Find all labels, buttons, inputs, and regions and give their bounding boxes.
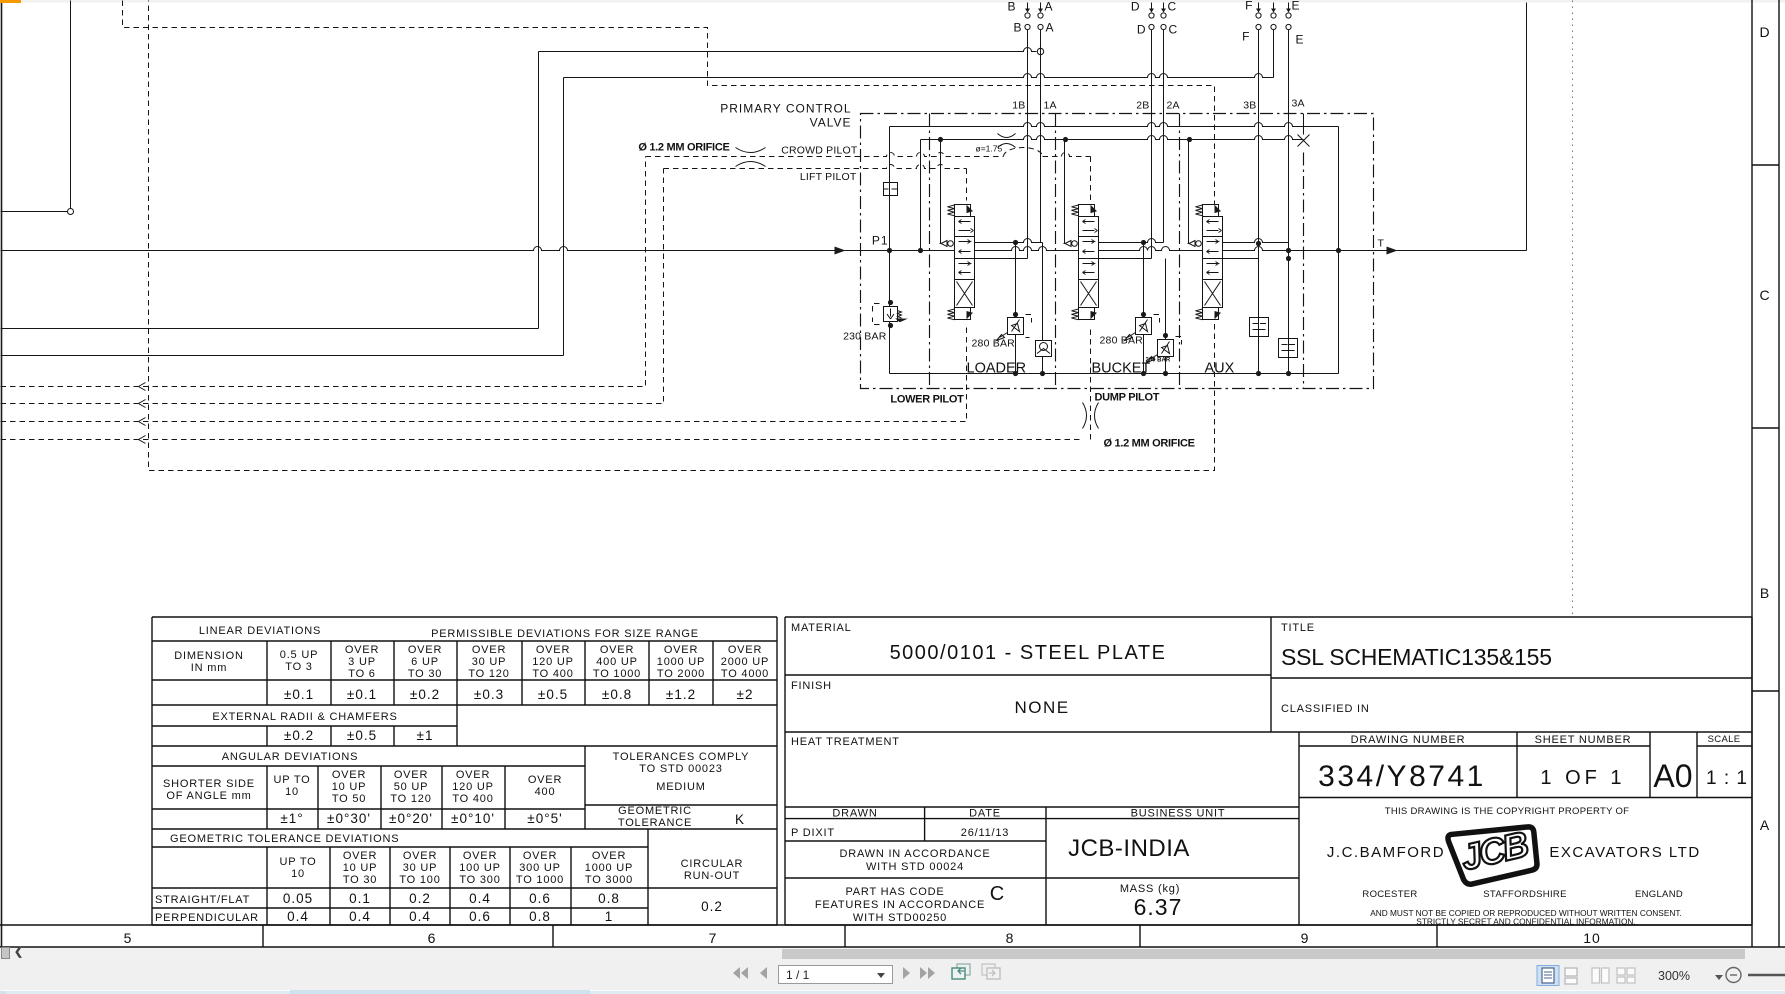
page layout icons: [1530, 965, 1650, 989]
svg-text:CLASSIFIED IN: CLASSIFIED IN: [1281, 703, 1370, 715]
svg-text:±0.2: ±0.2: [410, 687, 440, 702]
svg-text:3A: 3A: [1292, 98, 1305, 110]
restrictor (pilot filter): [884, 183, 898, 196]
svg-text:TO 120: TO 120: [390, 793, 431, 805]
border zone column right: [1752, 0, 1779, 947]
wire: port 1A: [1040, 30, 1042, 243]
title block text: [791, 622, 1748, 927]
svg-text:GEOMETRIC: GEOMETRIC: [618, 805, 692, 817]
svg-text:Ø 1.2 MM ORIFICE: Ø 1.2 MM ORIFICE: [1104, 438, 1195, 450]
svg-text:D: D: [1137, 23, 1147, 37]
svg-text:0.6: 0.6: [529, 891, 551, 906]
viewer bottom toolbar: [0, 948, 1785, 990]
svg-text:E: E: [1292, 0, 1301, 13]
svg-text:5: 5: [124, 930, 133, 946]
tolerance table text: [155, 625, 769, 924]
svg-text:OVER: OVER: [403, 850, 437, 862]
wire: port 1B: [1027, 30, 1029, 259]
svg-text:PART HAS CODE: PART HAS CODE: [845, 886, 944, 898]
secondary relief (bucket): [1147, 259, 1182, 374]
svg-text:1000 UP: 1000 UP: [585, 862, 633, 874]
svg-text:0.8: 0.8: [529, 909, 551, 924]
svg-text:0.8: 0.8: [598, 891, 620, 906]
wire: main pressure line P: [1, 247, 1527, 251]
svg-text:±2: ±2: [737, 687, 754, 702]
svg-text:B: B: [1013, 21, 1022, 35]
svg-text:LOADER: LOADER: [967, 361, 1027, 377]
port relief valve 280 BAR (loader): [997, 243, 1032, 374]
svg-text:F: F: [1242, 30, 1250, 44]
svg-text:P1: P1: [872, 234, 889, 248]
wire: dump pilot line: [1, 326, 1091, 444]
svg-text:P DIXIT: P DIXIT: [791, 827, 835, 839]
svg-text:FEATURES IN ACCORDANCE: FEATURES IN ACCORDANCE: [815, 899, 985, 911]
svg-text:10 UP: 10 UP: [343, 862, 378, 874]
svg-text:OVER: OVER: [456, 769, 490, 781]
ports D/C arrows+circles: [1149, 3, 1166, 30]
wire: dashed drain line loop: [123, 1, 1215, 471]
svg-text:OF ANGLE mm: OF ANGLE mm: [166, 790, 251, 802]
svg-text:0.4: 0.4: [349, 909, 371, 924]
anti-cavitation valve 3B: [1250, 318, 1269, 337]
svg-text:LIFT PILOT: LIFT PILOT: [800, 171, 857, 183]
svg-text:30 UP: 30 UP: [472, 656, 507, 668]
svg-text:120 UP: 120 UP: [532, 656, 574, 668]
svg-text:JCB-INDIA: JCB-INDIA: [1068, 835, 1190, 862]
svg-text:7: 7: [709, 930, 718, 946]
svg-text:ROCESTER: ROCESTER: [1362, 889, 1417, 900]
svg-text:OVER: OVER: [728, 644, 762, 656]
ports F/E arrows+circles: [1256, 3, 1291, 30]
svg-text:OVER: OVER: [472, 644, 506, 656]
anti-cavitation valve 3A: [1279, 339, 1298, 358]
horizontal scrollbar: [0, 948, 1785, 959]
plug X at 3A spool: [1298, 135, 1310, 147]
wire: port 2A: [1163, 30, 1165, 243]
svg-text:TO 3000: TO 3000: [585, 874, 633, 886]
svg-text:±0°10': ±0°10': [451, 811, 495, 826]
JCB logo: [1447, 816, 1542, 887]
svg-text:OVER: OVER: [332, 769, 366, 781]
svg-text:WITH STD00250: WITH STD00250: [853, 912, 947, 924]
svg-text:120 UP: 120 UP: [452, 781, 494, 793]
svg-text:CROWD PILOT: CROWD PILOT: [781, 145, 858, 157]
4/3 spool valve V2: [1064, 140, 1164, 320]
svg-text:±0.2: ±0.2: [284, 728, 314, 743]
svg-text:OVER: OVER: [394, 769, 428, 781]
svg-text:WITH STD 00024: WITH STD 00024: [866, 861, 964, 873]
svg-text:E: E: [1296, 33, 1305, 47]
svg-text:IN mm: IN mm: [191, 662, 227, 674]
svg-text:±0°20': ±0°20': [389, 811, 433, 826]
wire: pilot supply bus: [921, 136, 1304, 251]
wire: upper work line A: [1, 48, 1044, 329]
svg-text:0.2: 0.2: [409, 891, 431, 906]
svg-text:TO 1000: TO 1000: [593, 668, 641, 680]
svg-text:ANGULAR DEVIATIONS: ANGULAR DEVIATIONS: [222, 751, 358, 763]
svg-text:280 BAR: 280 BAR: [972, 338, 1016, 350]
bottom edge strip: [0, 990, 1785, 994]
svg-text:D: D: [1759, 24, 1770, 40]
title block: [785, 617, 1752, 925]
svg-text:TO 30: TO 30: [343, 874, 377, 886]
svg-text:DUMP PILOT: DUMP PILOT: [1095, 392, 1160, 404]
svg-text:D: D: [1131, 0, 1141, 14]
svg-text:MEDIUM: MEDIUM: [656, 781, 705, 793]
svg-text:50 UP: 50 UP: [394, 781, 429, 793]
svg-text:A: A: [1046, 21, 1055, 35]
svg-text:OVER: OVER: [345, 644, 379, 656]
svg-text:10: 10: [1583, 930, 1601, 946]
svg-text:6 UP: 6 UP: [411, 656, 439, 668]
svg-text:LINEAR DEVIATIONS: LINEAR DEVIATIONS: [199, 625, 321, 637]
svg-text:NONE: NONE: [1014, 698, 1069, 717]
svg-text:TO 2000: TO 2000: [657, 668, 705, 680]
svg-text:±0.1: ±0.1: [284, 687, 314, 702]
svg-text:DIMENSION: DIMENSION: [174, 650, 244, 662]
wire: lift pilot line: [1, 165, 967, 408]
svg-text:1: 1: [605, 909, 614, 924]
svg-text:SHEET NUMBER: SHEET NUMBER: [1535, 734, 1632, 746]
svg-text:TO 300: TO 300: [459, 874, 500, 886]
svg-text:TOLERANCES COMPLY: TOLERANCES COMPLY: [613, 751, 750, 763]
arrow at T outlet: [1387, 247, 1398, 255]
svg-text:2000 UP: 2000 UP: [721, 656, 769, 668]
orange corner marker: [0, 0, 21, 3]
svg-text:6.37: 6.37: [1134, 894, 1183, 920]
svg-text:FINISH: FINISH: [791, 680, 832, 692]
svg-text:TITLE: TITLE: [1281, 622, 1315, 634]
svg-text:±1°: ±1°: [280, 811, 303, 826]
orifice (crowd pilot): [736, 148, 766, 167]
svg-text:A: A: [1045, 0, 1054, 14]
nav buttons: [730, 962, 1040, 992]
svg-text:AUX: AUX: [1205, 361, 1235, 377]
orifice 1.75 symbol: [998, 134, 1016, 148]
svg-text:2A: 2A: [1167, 100, 1180, 112]
svg-text:400 UP: 400 UP: [596, 656, 638, 668]
svg-text:OVER: OVER: [523, 850, 557, 862]
svg-text:230 BAR: 230 BAR: [843, 331, 887, 343]
svg-text:30 UP: 30 UP: [403, 862, 438, 874]
svg-text:TO 50: TO 50: [332, 793, 366, 805]
port relief valve 280 BAR (bucket): [1125, 243, 1160, 374]
svg-text:A: A: [1760, 817, 1770, 833]
svg-text:TO 6: TO 6: [348, 668, 375, 680]
page box: [778, 965, 893, 984]
svg-text:BUSINESS UNIT: BUSINESS UNIT: [1131, 808, 1226, 820]
wire: tank return riser: [1526, 3, 1528, 251]
svg-text:ENGLAND: ENGLAND: [1635, 889, 1683, 900]
svg-text:PERPENDICULAR: PERPENDICULAR: [155, 912, 259, 924]
svg-text:±0.5: ±0.5: [538, 687, 568, 702]
svg-text:T: T: [1378, 238, 1385, 250]
svg-text:OVER: OVER: [528, 774, 562, 786]
svg-text:RUN-OUT: RUN-OUT: [684, 870, 740, 882]
tolerance table: [152, 617, 777, 925]
svg-text:0.05: 0.05: [283, 891, 313, 906]
ports B/A arrows+circles: [1025, 3, 1043, 30]
junction dots: [887, 248, 892, 253]
svg-text:0.1: 0.1: [349, 891, 371, 906]
svg-text:334/Y8741: 334/Y8741: [1318, 760, 1486, 793]
svg-text:TO 400: TO 400: [532, 668, 573, 680]
svg-text:±1.2: ±1.2: [666, 687, 696, 702]
fold mark dotted line: [1572, 1, 1574, 617]
svg-text:1 : 1: 1 : 1: [1706, 768, 1748, 789]
svg-text:VALVE: VALVE: [810, 116, 852, 130]
svg-text:SSL SCHEMATIC135&155: SSL SCHEMATIC135&155: [1281, 644, 1552, 670]
svg-text:UP TO: UP TO: [279, 856, 316, 868]
svg-text:TO 4000: TO 4000: [721, 668, 769, 680]
svg-text:OVER: OVER: [664, 644, 698, 656]
svg-text:10: 10: [291, 868, 305, 880]
svg-text:PERMISSIBLE DEVIATIONS FOR SIZ: PERMISSIBLE DEVIATIONS FOR SIZE RANGE: [431, 628, 699, 640]
svg-text:±1: ±1: [417, 728, 434, 743]
svg-text:OVER: OVER: [592, 850, 626, 862]
svg-text:MATERIAL: MATERIAL: [791, 622, 852, 634]
svg-text:1 OF 1: 1 OF 1: [1540, 767, 1625, 789]
svg-text:10: 10: [285, 786, 299, 798]
sheet left border: [1, 1, 3, 948]
svg-text:EXCAVATORS LTD: EXCAVATORS LTD: [1549, 844, 1700, 861]
svg-text:0.6: 0.6: [469, 909, 491, 924]
wire: port 3B: [1258, 30, 1260, 374]
svg-text:8: 8: [1006, 930, 1015, 946]
svg-text:OVER: OVER: [536, 644, 570, 656]
svg-text:0.2: 0.2: [701, 899, 723, 914]
svg-text:0.4: 0.4: [469, 891, 491, 906]
svg-text:6: 6: [428, 930, 437, 946]
svg-text:DRAWING NUMBER: DRAWING NUMBER: [1351, 734, 1466, 746]
svg-text:TO 120: TO 120: [468, 668, 509, 680]
svg-text:1B: 1B: [1012, 100, 1025, 112]
svg-text:0.5 UP: 0.5 UP: [280, 649, 318, 661]
svg-text:Ø 1.2 MM ORIFICE: Ø 1.2 MM ORIFICE: [638, 142, 729, 154]
svg-text:DRAWN: DRAWN: [832, 808, 877, 820]
svg-text:J.C.BAMFORD: J.C.BAMFORD: [1327, 844, 1445, 861]
svg-text:300 UP: 300 UP: [519, 862, 561, 874]
svg-text:OVER: OVER: [408, 644, 442, 656]
svg-text:5000/0101 - STEEL PLATE: 5000/0101 - STEEL PLATE: [890, 642, 1167, 664]
svg-text:2B: 2B: [1136, 100, 1149, 112]
svg-text:EXTERNAL RADII & CHAMFERS: EXTERNAL RADII & CHAMFERS: [212, 711, 397, 723]
svg-text:SHORTER SIDE: SHORTER SIDE: [163, 778, 255, 790]
svg-text:±0.1: ±0.1: [347, 687, 377, 702]
svg-text:TO 400: TO 400: [452, 793, 493, 805]
4/3 spool valve V3: [1188, 140, 1289, 320]
svg-text:UP TO: UP TO: [273, 774, 310, 786]
svg-text:PRIMARY CONTROL: PRIMARY CONTROL: [720, 102, 851, 116]
svg-text:HEAT TREATMENT: HEAT TREATMENT: [791, 736, 900, 748]
svg-text:GEOMETRIC TOLERANCE DEVIATIONS: GEOMETRIC TOLERANCE DEVIATIONS: [170, 833, 399, 845]
svg-text:LOWER PILOT: LOWER PILOT: [890, 394, 964, 406]
svg-text:BUCKET: BUCKET: [1092, 361, 1151, 377]
svg-text:ø=1.75: ø=1.75: [976, 144, 1003, 154]
svg-text:OVER: OVER: [343, 850, 377, 862]
4/3 spool valve V1: [940, 140, 1043, 320]
border zone strip bottom: [0, 925, 1785, 947]
svg-text:0.4: 0.4: [287, 909, 309, 924]
svg-text:CIRCULAR: CIRCULAR: [681, 858, 744, 870]
svg-text:F: F: [1245, 0, 1253, 13]
svg-text:100 UP: 100 UP: [459, 862, 501, 874]
svg-text:TO 100: TO 100: [399, 874, 440, 886]
svg-text:C: C: [990, 883, 1004, 905]
svg-text:±0°5': ±0°5': [527, 811, 562, 826]
svg-text:±0.5: ±0.5: [347, 728, 377, 743]
svg-text:26/11/13: 26/11/13: [961, 827, 1009, 839]
wire: bus loop (tank gallery): [890, 123, 1339, 374]
svg-text:9: 9: [1301, 930, 1310, 946]
wire: crowd pilot line: [1, 148, 1091, 391]
svg-text:10 UP: 10 UP: [332, 781, 367, 793]
svg-text:OVER: OVER: [600, 644, 634, 656]
svg-text:STRAIGHT/FLAT: STRAIGHT/FLAT: [155, 894, 250, 906]
svg-text:DATE: DATE: [969, 808, 1001, 820]
svg-text:3 UP: 3 UP: [348, 656, 376, 668]
wire: port 2B: [1151, 30, 1153, 259]
svg-text:THIS DRAWING IS THE COPYRIGHT: THIS DRAWING IS THE COPYRIGHT PROPERTY O…: [1385, 806, 1630, 817]
svg-text:±0.8: ±0.8: [602, 687, 632, 702]
wire: lower pilot line: [1, 326, 967, 426]
svg-text:400: 400: [535, 786, 556, 798]
svg-text:TO 3: TO 3: [285, 661, 312, 673]
svg-text:TO 1000: TO 1000: [516, 874, 564, 886]
svg-text:B: B: [1007, 0, 1016, 14]
svg-text:0.4: 0.4: [409, 909, 431, 924]
orifice (dump pilot) 1.2mm: [1083, 403, 1099, 429]
svg-text:SCALE: SCALE: [1708, 734, 1741, 745]
svg-text:280 BAR: 280 BAR: [1100, 335, 1144, 347]
primary control valve boundary box: [861, 114, 1374, 389]
svg-text:1A: 1A: [1044, 100, 1057, 112]
svg-text:STAFFORDSHIRE: STAFFORDSHIRE: [1483, 889, 1566, 900]
svg-text:OVER: OVER: [463, 850, 497, 862]
svg-text:±0.3: ±0.3: [474, 687, 504, 702]
svg-text:TO 30: TO 30: [408, 668, 442, 680]
arrow on P line: [835, 247, 846, 255]
check valve (loader): [1036, 243, 1052, 374]
svg-text:DRAWN IN ACCORDANCE: DRAWN IN ACCORDANCE: [839, 848, 990, 860]
svg-text:B: B: [1760, 585, 1770, 601]
wire: port 3A: [1288, 30, 1290, 374]
svg-text:A0: A0: [1653, 758, 1692, 794]
svg-text:±0°30': ±0°30': [327, 811, 371, 826]
wire: upper work line B: [1, 30, 1274, 356]
svg-text:C: C: [1759, 287, 1770, 303]
svg-text:TO STD 00023: TO STD 00023: [639, 763, 722, 775]
svg-text:TOLERANCE: TOLERANCE: [618, 817, 692, 829]
section divider lines: [929, 114, 931, 389]
relief valve 230 BAR: [873, 304, 908, 325]
svg-text:C: C: [1169, 23, 1179, 37]
svg-text:K: K: [735, 812, 745, 827]
svg-text:3B: 3B: [1243, 100, 1256, 112]
svg-text:C: C: [1168, 0, 1178, 14]
wire: left feed line with node: [1, 1, 74, 215]
svg-text:1000 UP: 1000 UP: [657, 656, 705, 668]
